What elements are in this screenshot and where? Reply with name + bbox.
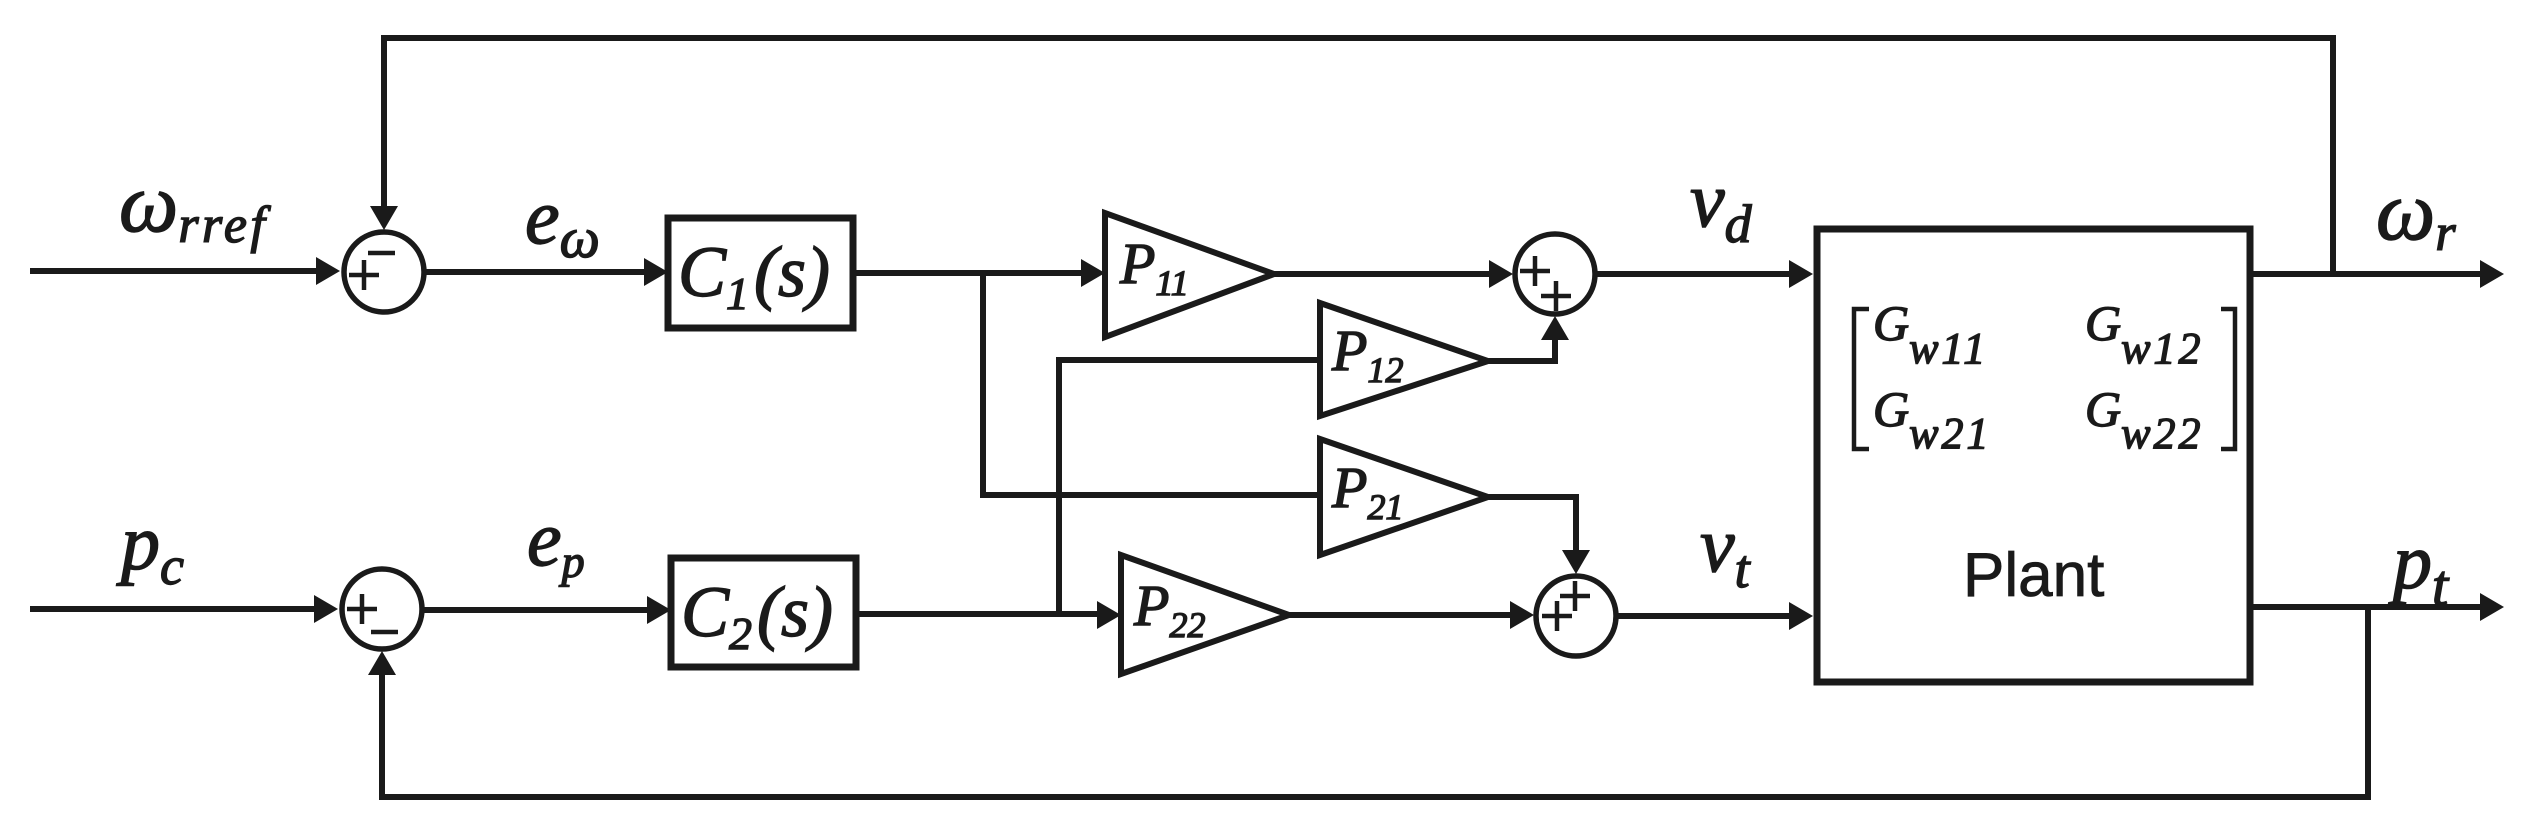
wire: p_t output — [2250, 604, 2480, 610]
gain P11 — [1105, 213, 1274, 337]
svg-text:Gw12: Gw12 — [2085, 295, 2203, 373]
wire: feedback top from omega_r — [384, 38, 2333, 274]
svg-text:ep: ep — [527, 495, 585, 587]
wire: e_p — [424, 607, 647, 613]
S2 minus sign — [371, 630, 398, 635]
wire: P11 out to S3 — [1274, 271, 1489, 277]
svg-text:pc: pc — [116, 499, 184, 596]
S1 minus sign — [368, 251, 395, 256]
svg-text:vt: vt — [1700, 501, 1752, 599]
block Plant — [1817, 229, 2250, 682]
wire: omega_rref input — [30, 268, 316, 274]
svg-text:C2(s): C2(s) — [681, 572, 833, 659]
svg-text:eω: eω — [525, 173, 600, 270]
wire: C1 out to P11 — [853, 270, 1081, 276]
svg-text:Gw22: Gw22 — [2085, 381, 2203, 458]
svg-text:pt: pt — [2388, 518, 2450, 618]
summing junction S3 — [1515, 234, 1595, 314]
gain P12 — [1320, 303, 1488, 416]
summing junction S4 — [1536, 576, 1616, 656]
S3 plus sign lower — [1541, 281, 1571, 311]
S1 plus sign — [349, 260, 379, 290]
svg-text:Gw11: Gw11 — [1873, 295, 1988, 373]
Plant matrix left bracket — [1854, 309, 1869, 449]
svg-text:Gw21: Gw21 — [1873, 381, 1991, 458]
wire: v_t to Plant — [1618, 613, 1789, 619]
wire: P12 out up to S3 — [1488, 340, 1555, 361]
Plant matrix right bracket — [2221, 309, 2235, 449]
block C1(s) — [668, 218, 853, 328]
gain P21 — [1320, 439, 1488, 555]
summing junction S2 — [342, 569, 422, 649]
wire: e_omega — [426, 269, 644, 275]
svg-text:vd: vd — [1690, 156, 1753, 254]
wire: P21 out down to S4 — [1488, 497, 1576, 550]
wire: branch from C2 out up to P12 — [1059, 360, 1322, 614]
block C2(s) — [671, 558, 856, 667]
svg-text:C1(s): C1(s) — [678, 232, 830, 319]
S2 plus sign — [347, 594, 377, 624]
S4 plus sign upper — [1560, 581, 1590, 611]
wire: branch down from C1 output — [983, 273, 1322, 495]
wire: feedback bottom from p_t — [382, 607, 2368, 797]
svg-text:ωrref: ωrref — [119, 157, 271, 254]
S4 plus sign left — [1542, 601, 1572, 631]
wire: v_d to Plant — [1597, 271, 1789, 277]
wire: P22 out to S4 — [1289, 612, 1510, 618]
wire: C2 out to P22 — [856, 611, 1097, 617]
svg-text:Plant: Plant — [1963, 541, 2104, 610]
svg-text:ωr: ωr — [2376, 165, 2456, 262]
wire: omega_r output — [2250, 271, 2480, 277]
summing junction S1 — [344, 232, 424, 312]
gain P22 — [1121, 555, 1289, 674]
S3 plus sign upper-left — [1520, 256, 1550, 286]
wire: p_c input — [30, 606, 314, 612]
